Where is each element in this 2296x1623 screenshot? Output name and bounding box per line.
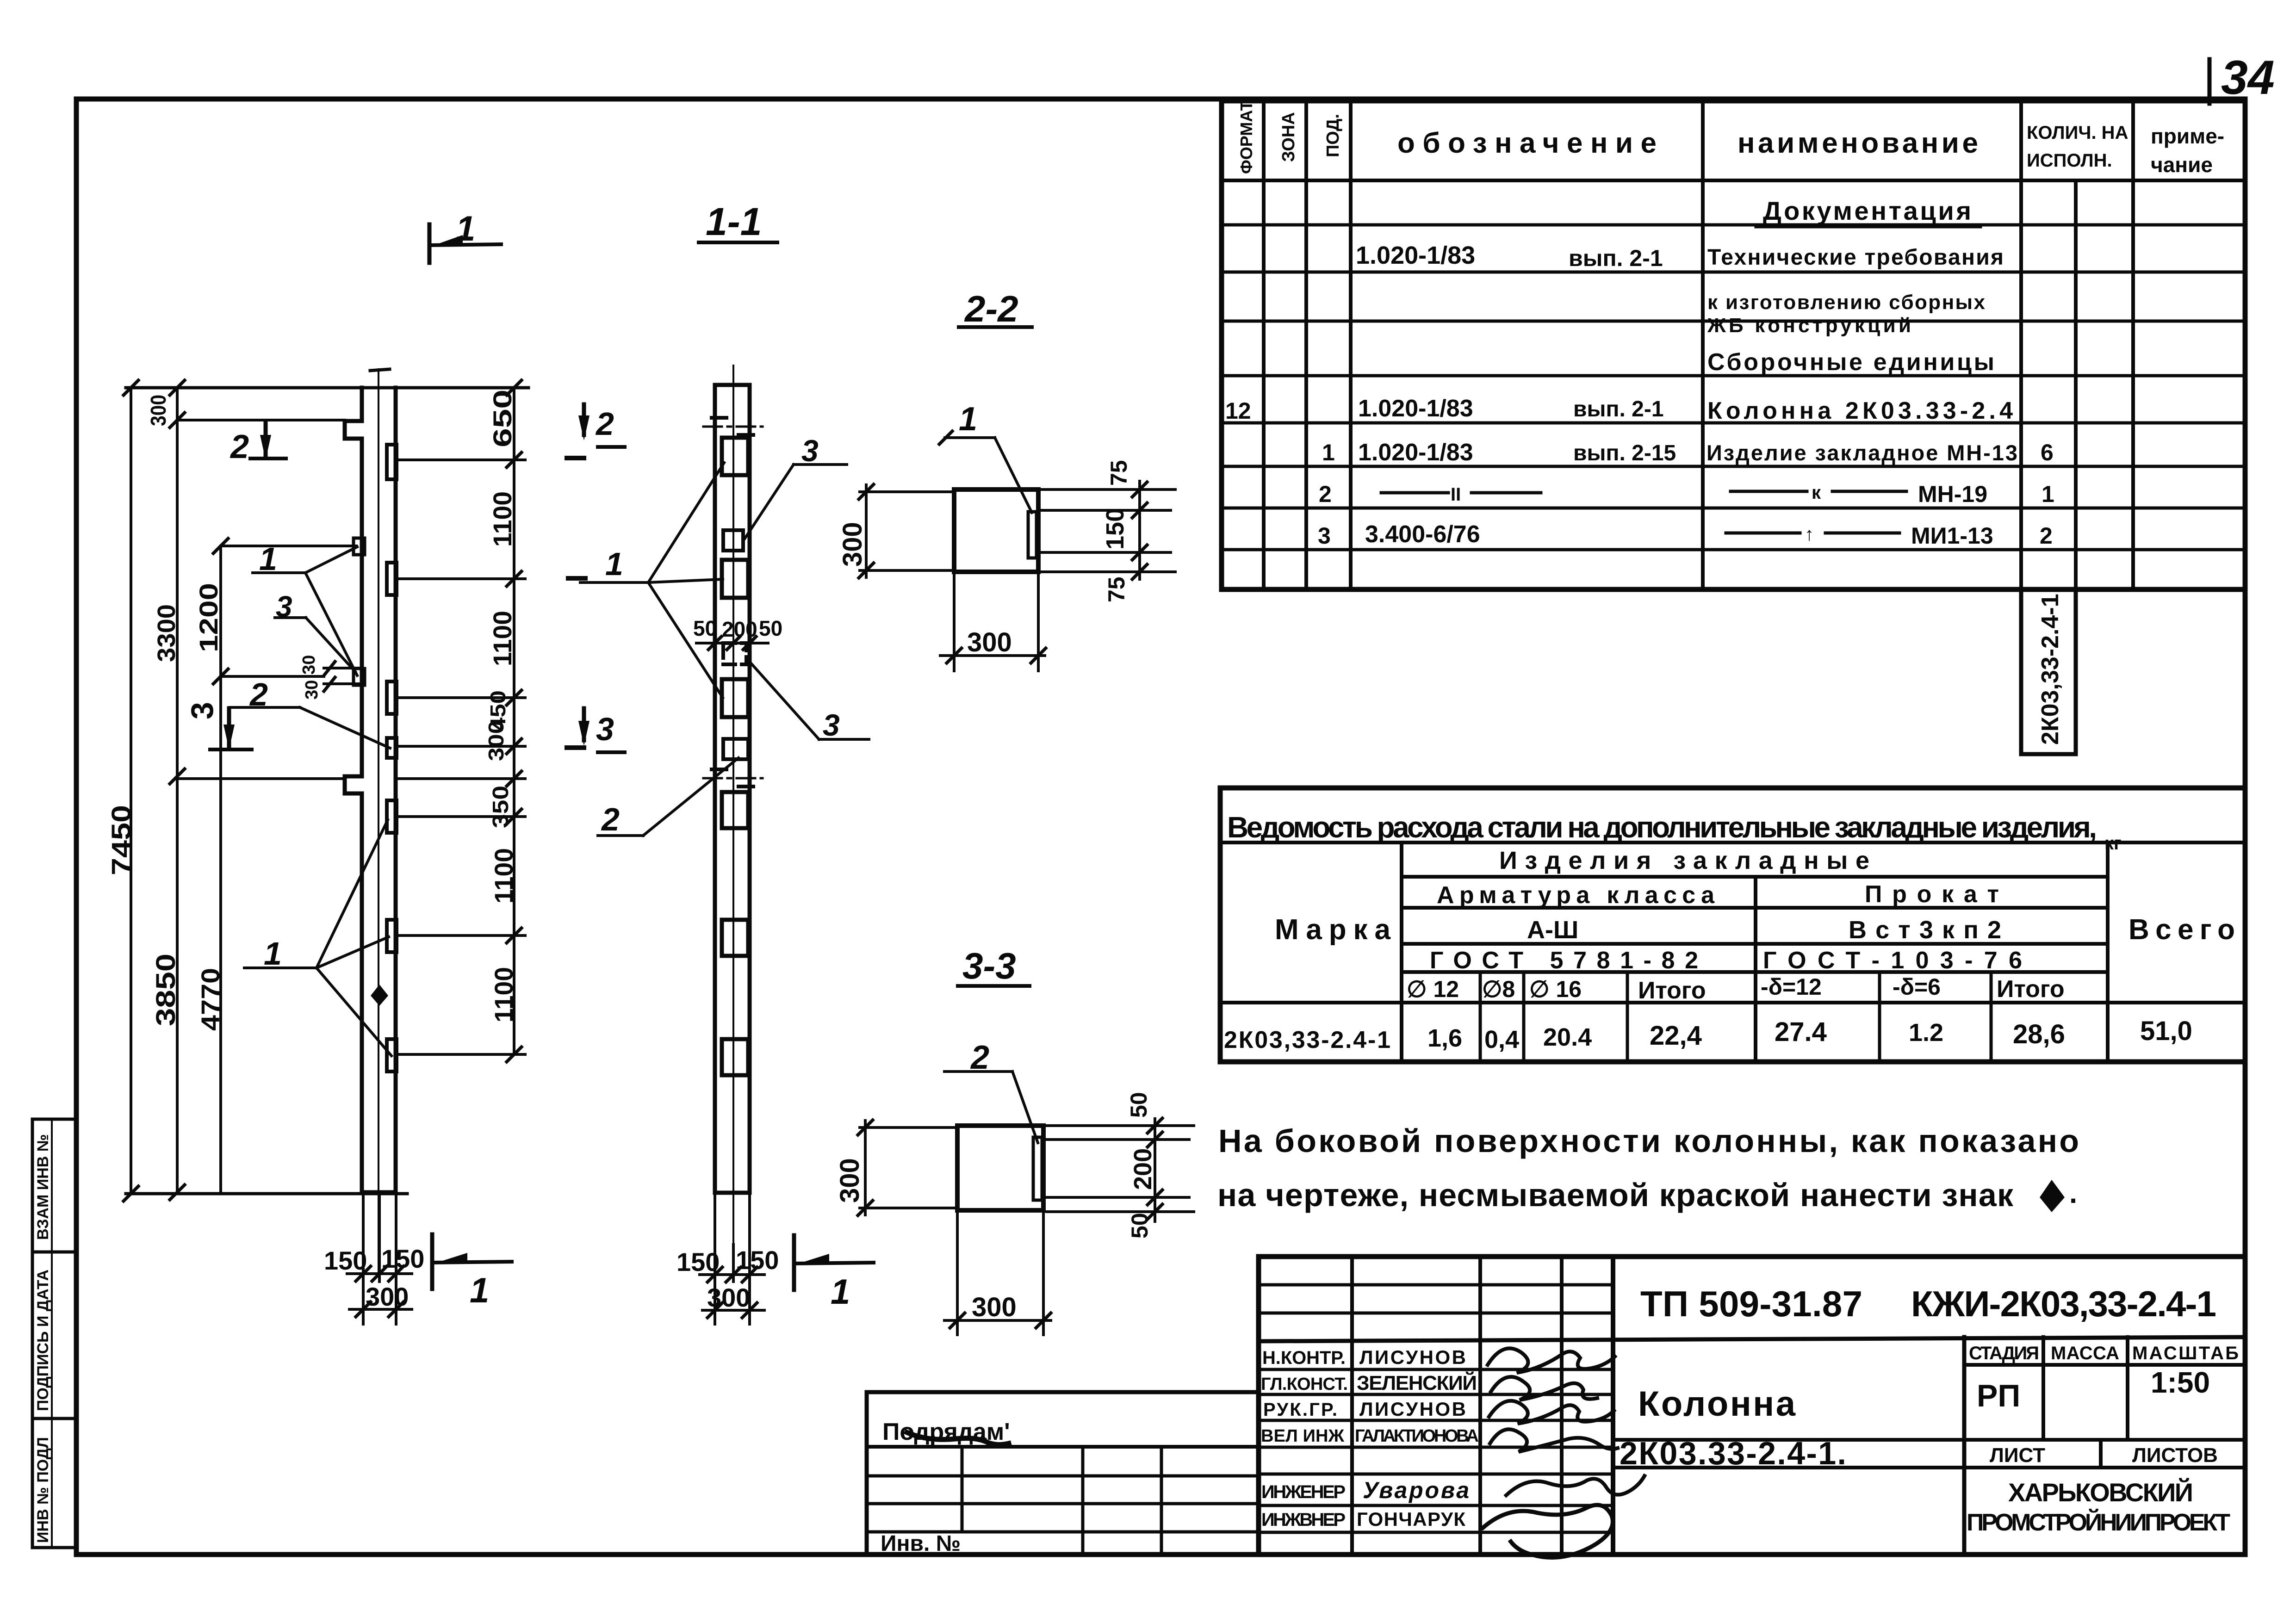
elev tick chain3 1462	[213, 669, 228, 684]
spec table col sub line	[2074, 180, 2078, 589]
elev right plate 5	[387, 800, 397, 833]
svg-text:2: 2	[230, 428, 249, 465]
elev leader 1 upper: arm a	[305, 547, 357, 573]
svg-text:1: 1	[470, 1271, 489, 1310]
s33 plate	[1033, 1137, 1042, 1200]
titleblock left row 7	[1259, 1446, 1613, 1449]
elev tick chain2 1678	[170, 769, 185, 784]
svg-text:1.2: 1.2	[1909, 1019, 1943, 1047]
s11 bottom tick 300 a	[707, 1303, 722, 1318]
s11 dim tick b	[727, 637, 740, 650]
titleblock left row 10	[1259, 1531, 1613, 1534]
s33 left tick bottom	[858, 1201, 873, 1215]
elev centerline top tick	[370, 369, 390, 371]
elev tick 7450 top	[124, 380, 138, 395]
s22 bottom ext right	[1037, 572, 1040, 671]
s11 leader 3 lower: arm	[749, 661, 819, 739]
s11 bottom ext left	[714, 1193, 716, 1324]
titleblock left row 6	[1259, 1419, 1613, 1422]
elev column centerline	[378, 369, 379, 1272]
s33 right ext 2588	[1047, 1196, 1189, 1199]
titleblock left row 4	[1259, 1368, 1613, 1371]
s11 bottom dim line 150s	[700, 1273, 764, 1276]
svg-text:1:50: 1:50	[2151, 1366, 2210, 1399]
svg-text:3: 3	[801, 434, 819, 468]
elev dim 30 upper line	[324, 667, 362, 669]
s11 strip top end	[715, 383, 750, 387]
svg-text:КОЛИЧ. НА: КОЛИЧ. НА	[2027, 123, 2128, 143]
elev dim line 7450	[130, 388, 132, 1194]
spec table col line 3	[1349, 101, 1353, 589]
left margin strip box	[32, 1119, 76, 1548]
vedomost outer box	[1220, 788, 2245, 1062]
svg-text:II: II	[1451, 484, 1461, 505]
svg-text:3-3: 3-3	[962, 945, 1016, 986]
s33 right dim line	[1154, 1119, 1156, 1221]
s22 left ext bottom	[860, 569, 954, 572]
elev top extension line	[126, 386, 528, 390]
svg-text:300: 300	[967, 627, 1012, 657]
elev leader 1 upper: arm b	[305, 573, 357, 675]
s11 plate P8	[722, 920, 748, 956]
svg-text:↑: ↑	[1805, 524, 1814, 545]
s22 label 1 arm	[995, 438, 1032, 513]
svg-text:∅ 12: ∅ 12	[1407, 976, 1459, 1002]
spec row line 8	[1222, 548, 2245, 551]
vedomost row арматура bottom	[1402, 906, 2108, 910]
s22 right ext 1236	[1041, 570, 1175, 573]
s22 left tick bottom	[859, 563, 874, 578]
spec table col line 2	[1304, 101, 1308, 589]
svg-text:ФОРМАТ: ФОРМАТ	[1237, 101, 1256, 174]
svg-text:ХАРЬКОВСКИЙ: ХАРЬКОВСКИЙ	[2008, 1478, 2193, 1507]
s11 dim 50-200-50 line	[696, 642, 768, 644]
svg-text:МН-19: МН-19	[1918, 481, 1987, 507]
vedomost row ГОСТ bottom	[1402, 970, 2108, 974]
svg-text:МИ1-13: МИ1-13	[1911, 523, 1993, 549]
podryadam box	[867, 1392, 1259, 1555]
elev right ext 1251	[398, 577, 525, 580]
svg-text:50: 50	[759, 616, 782, 640]
podryadam col 3	[1160, 1447, 1163, 1555]
svg-text:1,6: 1,6	[1427, 1024, 1462, 1052]
s33 right tick c	[1148, 1190, 1162, 1205]
svg-text:2К03.33-2.4-1.: 2К03.33-2.4-1.	[1620, 1435, 1846, 1471]
svg-text:ЛИСУНОВ: ЛИСУНОВ	[1359, 1398, 1466, 1420]
s11 cut edge dash mid b	[738, 785, 753, 788]
s33 left tick top	[858, 1120, 873, 1135]
svg-text:Колонна: Колонна	[1638, 1384, 1796, 1424]
elev left face plate A	[354, 538, 365, 555]
signature squiggle engineer 2	[1483, 1505, 1613, 1558]
podryadam row 4	[867, 1530, 1259, 1534]
elev corbel2 extension	[177, 777, 345, 780]
s22 header underline	[959, 325, 1032, 329]
elev quality diamond	[371, 985, 388, 1006]
elev right tick 1765	[507, 809, 521, 824]
s33 header underline	[958, 984, 1030, 988]
spec table col line 6	[2131, 101, 2135, 589]
spec row line 7	[1222, 507, 2245, 510]
svg-text:75: 75	[1106, 460, 1132, 486]
svg-text:ГОНЧАРУК: ГОНЧАРУК	[1357, 1508, 1465, 1530]
svg-text:-δ=6: -δ=6	[1893, 974, 1941, 1000]
spec row line 4	[1222, 374, 2245, 378]
elev section mark 1 bottom: bar	[432, 1262, 512, 1263]
s11 leader 3 upper: underline	[794, 463, 847, 466]
spec table col line 1	[1262, 101, 1266, 589]
svg-text:30: 30	[299, 655, 319, 675]
s11 section mark 1 bottom: bar	[794, 1263, 874, 1264]
signature squiggle 4	[1490, 1429, 1618, 1452]
svg-text:Итого: Итого	[1638, 977, 1706, 1004]
svg-text:ГЛ.КОНСТ.: ГЛ.КОНСТ.	[1261, 1375, 1348, 1394]
elev right plate 2	[387, 563, 397, 595]
elev level dash a	[567, 456, 584, 460]
s22 bottom tick right	[1031, 648, 1046, 663]
elev corbel1 extension	[177, 419, 345, 421]
svg-text:3: 3	[1318, 523, 1331, 549]
titleblock left row 8	[1259, 1473, 1613, 1476]
svg-text:3: 3	[185, 702, 220, 719]
s11 leader 2: underline	[598, 834, 643, 837]
elev section mark 1 bottom: line	[430, 1234, 434, 1289]
elev leader 1 lower: arm b	[316, 937, 389, 968]
elev tick chain3 1180	[213, 539, 228, 553]
svg-text:1.020-1/83: 1.020-1/83	[1358, 395, 1473, 422]
svg-text:300: 300	[972, 1292, 1017, 1322]
svg-text:чание: чание	[2151, 153, 2213, 177]
signature squiggle 3	[1489, 1401, 1614, 1424]
s11 bottom tick a	[707, 1267, 722, 1282]
svg-text:1100: 1100	[488, 491, 517, 547]
elev right plate 3	[387, 681, 397, 714]
s11 bottom ext center	[732, 1245, 735, 1282]
svg-text:2: 2	[1319, 481, 1332, 507]
elev bottom extension line	[126, 1192, 407, 1196]
s11 leader 1: arm b	[648, 579, 723, 582]
s11 dim tick a	[708, 637, 721, 650]
svg-text:300: 300	[366, 1282, 409, 1311]
svg-text:ИНЖЕНЕР: ИНЖЕНЕР	[1261, 1482, 1346, 1502]
signature squiggle 2	[1491, 1377, 1597, 1400]
s22 right tick a	[1132, 482, 1147, 497]
svg-text:Изделие закладное МН-13: Изделие закладное МН-13	[1706, 440, 2017, 465]
s22 label 1 underline	[945, 436, 995, 439]
elev right ext 2279	[398, 1053, 525, 1056]
svg-text:ЛИСТОВ: ЛИСТОВ	[2132, 1444, 2218, 1467]
svg-text:наименование: наименование	[1738, 127, 1978, 159]
s11 strip left face	[713, 385, 717, 1193]
elev bottom ext left face	[362, 1194, 365, 1324]
s11 section mark 1 bottom: line	[792, 1235, 796, 1290]
s22 square	[954, 489, 1038, 572]
svg-text:3: 3	[596, 711, 614, 747]
elev dim 30 lower line	[324, 682, 362, 685]
elev section mark 3: arrow	[223, 725, 235, 750]
s11 section mark 1 bottom: arrow	[799, 1254, 829, 1264]
elev right tick 1508	[507, 690, 521, 705]
svg-text:28,6: 28,6	[2013, 1019, 2065, 1049]
elev right plate 7	[387, 1039, 397, 1072]
s22 right ext 1058	[1041, 488, 1175, 491]
s22 left tick top	[859, 484, 874, 499]
svg-text:1: 1	[2042, 481, 2054, 507]
elev right tick 994	[507, 452, 521, 467]
spec row МИ1-13 ditto	[1726, 532, 1800, 535]
svg-text:51,0: 51,0	[2140, 1016, 2192, 1046]
svg-text:вып. 2-1: вып. 2-1	[1569, 245, 1663, 271]
elev leader 1 lower: underline	[244, 966, 316, 969]
svg-text:ПРОМСТРОЙНИИПРОЕКТ: ПРОМСТРОЙНИИПРОЕКТ	[1967, 1509, 2230, 1536]
elev right ext 994	[398, 458, 525, 461]
svg-text:1100: 1100	[489, 848, 518, 904]
s11 plate P7	[722, 792, 748, 828]
svg-text:КЖИ-2К03,33-2.4-1: КЖИ-2К03,33-2.4-1	[1911, 1283, 2216, 1324]
svg-text:30: 30	[302, 680, 322, 700]
elev section mark 1 top: bar	[429, 244, 501, 245]
svg-text:ВЕЛ ИНЖ: ВЕЛ ИНЖ	[1261, 1426, 1345, 1446]
titleblock стадия col line	[1962, 1337, 1967, 1555]
elev bottom tick 300 b	[389, 1302, 403, 1317]
s33 right tick a	[1148, 1118, 1162, 1133]
svg-text:2К03,33-2.4-1: 2К03,33-2.4-1	[1224, 1027, 1390, 1053]
svg-text:300: 300	[146, 395, 170, 426]
svg-text:МАССА: МАССА	[2051, 1343, 2119, 1363]
elev right plate 1	[387, 445, 397, 479]
elev right ext 1508	[398, 696, 525, 699]
elev section mark 3: bar	[210, 748, 252, 751]
elev section mark 2: bar	[250, 457, 286, 460]
svg-text:Технические требования: Технические требования	[1707, 245, 2004, 270]
elev bottom ext center	[378, 1194, 381, 1282]
s11 cut edge dash top a	[712, 416, 726, 420]
s33 left ext bottom	[860, 1207, 957, 1209]
s33 left dim line	[864, 1121, 867, 1215]
s11 leader 1: arm c	[648, 582, 723, 698]
podryadam row 2	[867, 1474, 1259, 1478]
svg-text:Уварова: Уварова	[1363, 1477, 1469, 1503]
svg-text:0,4: 0,4	[1484, 1026, 1519, 1053]
s11 cut dashdot top	[703, 426, 763, 428]
s11 cut edge dash top b	[738, 433, 753, 437]
spec table col line 4	[1701, 101, 1705, 589]
elev right ext 1683	[398, 777, 525, 780]
elev right tick 2279	[507, 1047, 521, 1062]
s33 bottom tick left	[950, 1313, 965, 1328]
s22 right tick b	[1132, 503, 1147, 518]
elev section mark 2: line	[264, 421, 268, 456]
s11 leader 1: arm a	[648, 463, 724, 582]
spec row line 6	[1222, 465, 2245, 468]
elev ext 1180	[221, 545, 356, 547]
svg-text:4770: 4770	[196, 968, 225, 1031]
s33 right ext 2619	[1047, 1210, 1194, 1213]
spec row МН-19 ditto наименование	[1731, 490, 1807, 493]
titleblock масштаб col line	[2126, 1337, 2129, 1440]
s11 plate P2	[723, 530, 743, 551]
elev right plate 6	[387, 920, 397, 952]
elev ext 1462	[221, 675, 324, 678]
s11 bottom tick 300 b	[742, 1303, 757, 1318]
svg-text:А-Ш: А-Ш	[1527, 916, 1578, 944]
signature squiggle engineer 1	[1506, 1476, 1644, 1495]
svg-text:1-1: 1-1	[706, 200, 762, 243]
vedomost row диаметры bottom	[1220, 1001, 2245, 1004]
vedomost subcol d8 line	[1522, 972, 1526, 1062]
s33 bottom dim line	[944, 1319, 1051, 1322]
svg-text:150: 150	[1101, 508, 1129, 550]
elev leader 2: arm	[300, 707, 390, 748]
svg-text:ТП 509-31.87: ТП 509-31.87	[1640, 1283, 1862, 1324]
s11 cut dashdot mid	[703, 777, 763, 780]
s11 mark 2 arrow	[582, 404, 586, 435]
s33 right tick b	[1148, 1132, 1162, 1147]
svg-text:6: 6	[2041, 440, 2054, 465]
svg-text:РП: РП	[1977, 1378, 2020, 1413]
svg-text:ИСПОЛН.: ИСПОЛН.	[2027, 150, 2112, 171]
svg-text:ВЗАМ ИНВ №: ВЗАМ ИНВ №	[34, 1134, 52, 1240]
svg-text:150: 150	[736, 1245, 779, 1275]
s33 bottom tick right	[1036, 1313, 1051, 1328]
svg-text:-δ=12: -δ=12	[1761, 974, 1822, 1000]
vedomost арматура/прокат divider	[1754, 877, 1757, 1062]
s11 plate P6	[723, 739, 748, 759]
elev left face plate B	[354, 669, 365, 685]
s11 leader 3 upper: arm	[744, 465, 794, 540]
titleblock стадия header bottom	[1964, 1363, 2245, 1367]
s11 mark 3 arrow	[582, 708, 586, 740]
s11 bottom ext right	[748, 1193, 751, 1324]
elev tick chain2 908	[170, 413, 185, 427]
svg-text:2К03,33-2.4-1: 2К03,33-2.4-1	[2037, 594, 2064, 745]
svg-text:27.4: 27.4	[1775, 1017, 1827, 1047]
svg-text:вып. 2-1: вып. 2-1	[1573, 397, 1664, 421]
elev tick 7450 bottom	[124, 1186, 138, 1201]
elev right plate 4	[387, 738, 397, 758]
svg-text:Документация: Документация	[1763, 196, 1971, 225]
s33 right ext 2433	[1047, 1124, 1194, 1127]
elev dim line 1200-4770	[219, 546, 222, 1194]
s33 left ext top	[860, 1126, 957, 1129]
svg-text:обозначение: обозначение	[1397, 127, 1657, 159]
elev tick 30 a	[324, 662, 335, 675]
elev section mark 1 top: line	[428, 224, 432, 263]
svg-text:∅8: ∅8	[1482, 976, 1515, 1002]
svg-text:150: 150	[324, 1246, 367, 1275]
podryadam header bottom	[867, 1445, 1259, 1449]
svg-text:ИНЖВНЕР: ИНЖВНЕР	[1261, 1510, 1346, 1530]
elev column bottom end	[362, 1190, 396, 1195]
s11 plate P5	[722, 679, 748, 717]
svg-text:ПОДПИСЬ И ДАТА: ПОДПИСЬ И ДАТА	[34, 1270, 52, 1411]
elev bottom dim line 150s	[347, 1272, 412, 1275]
svg-text:ЛИСУНОВ: ЛИСУНОВ	[1359, 1346, 1466, 1368]
s11 mark 3 underline dash	[598, 750, 625, 754]
elev level dash b	[568, 576, 585, 581]
s11 leader 3 lower: underline	[819, 738, 869, 741]
elev right dim chain line	[513, 388, 515, 1054]
elev right tick 1613	[507, 739, 521, 754]
elev right tick 1683	[507, 771, 521, 786]
s11 mark 2 underline dash	[598, 445, 625, 449]
s11 leader 1: underline	[580, 581, 648, 584]
svg-text:1: 1	[831, 1272, 850, 1312]
svg-text:20.4: 20.4	[1543, 1023, 1592, 1051]
svg-text:ГАЛАКТИОНОВА: ГАЛАКТИОНОВА	[1355, 1426, 1479, 1446]
elev leader 1 lower: arm c	[316, 968, 391, 1056]
svg-text:300: 300	[838, 522, 868, 567]
s11 bottom tick c	[742, 1267, 757, 1282]
svg-text:22,4: 22,4	[1650, 1021, 1702, 1051]
svg-text:к изготовлению сборных: к изготовлению сборных	[1707, 291, 1986, 314]
s22 left dim line	[865, 485, 868, 577]
s22 bottom tick left	[947, 648, 962, 663]
svg-text:1: 1	[959, 401, 977, 438]
svg-text:12: 12	[1225, 398, 1251, 424]
spec table col line 5	[2019, 101, 2023, 589]
s11 bottom dim line 300	[702, 1309, 764, 1312]
svg-text:200: 200	[1129, 1148, 1157, 1190]
svg-text:1.020-1/83: 1.020-1/83	[1358, 439, 1473, 466]
svg-text:1200: 1200	[194, 583, 223, 652]
svg-text:ИНВ № ПОДЛ: ИНВ № ПОДЛ	[34, 1437, 52, 1543]
svg-text:Ведомость расхода стали на доп: Ведомость расхода стали на дополнительны…	[1227, 811, 2097, 844]
svg-text:300: 300	[707, 1283, 750, 1312]
svg-text:1.020-1/83: 1.020-1/83	[1356, 242, 1475, 269]
s22 left ext top	[860, 490, 954, 493]
s11 dim tick c	[743, 637, 756, 650]
s22 label 1 tick	[939, 431, 952, 444]
elev leader 1 upper: underline	[253, 571, 305, 574]
svg-text:300: 300	[835, 1158, 865, 1203]
svg-text:3300: 3300	[153, 604, 180, 662]
elev level dash c	[567, 745, 584, 750]
s11 strip right face	[748, 385, 752, 1193]
elev section mark 3: line	[227, 708, 231, 747]
s33 bottom ext left	[956, 1210, 959, 1335]
titleblock outer box	[1259, 1257, 2245, 1555]
svg-text:Инв. №: Инв. №	[881, 1531, 961, 1556]
s11 plate P9	[722, 1039, 748, 1075]
svg-text:.: .	[2069, 1177, 2077, 1209]
svg-text:75: 75	[1104, 576, 1129, 602]
svg-text:2: 2	[2040, 523, 2053, 549]
svg-text:2: 2	[601, 801, 620, 837]
svg-text:3850: 3850	[151, 954, 181, 1026]
elev tick chain2 838	[170, 380, 185, 395]
s11 leader 2: arm	[643, 758, 738, 836]
svg-text:приме-: приме-	[2151, 124, 2224, 148]
vedomost col МАРКА line	[1400, 842, 1403, 1062]
svg-text:Сборочные единицы: Сборочные единицы	[1707, 349, 1994, 376]
svg-text:7450: 7450	[106, 805, 137, 875]
titleblock left row 2	[1259, 1312, 1613, 1315]
vedomost title underrule	[1220, 841, 2245, 844]
podryadam col 2	[1081, 1447, 1085, 1555]
svg-text:к: к	[1812, 483, 1821, 503]
elev right ext 1765	[398, 815, 525, 818]
svg-text:2-2: 2-2	[964, 288, 1018, 329]
svg-text:34: 34	[2221, 51, 2275, 105]
elev right tick 1251	[507, 571, 521, 586]
elev leader 1 lower: arm a	[316, 820, 388, 968]
elev section mark 1 top: arrow	[434, 235, 463, 245]
svg-text:На боковой поверхности коло: На боковой поверхности колонны, как пока…	[1218, 1123, 2079, 1159]
titleblock left col c	[1560, 1257, 1564, 1555]
titleblock left col d	[1611, 1257, 1615, 1555]
vedomost col ВСЕГО line	[2106, 842, 2110, 1062]
